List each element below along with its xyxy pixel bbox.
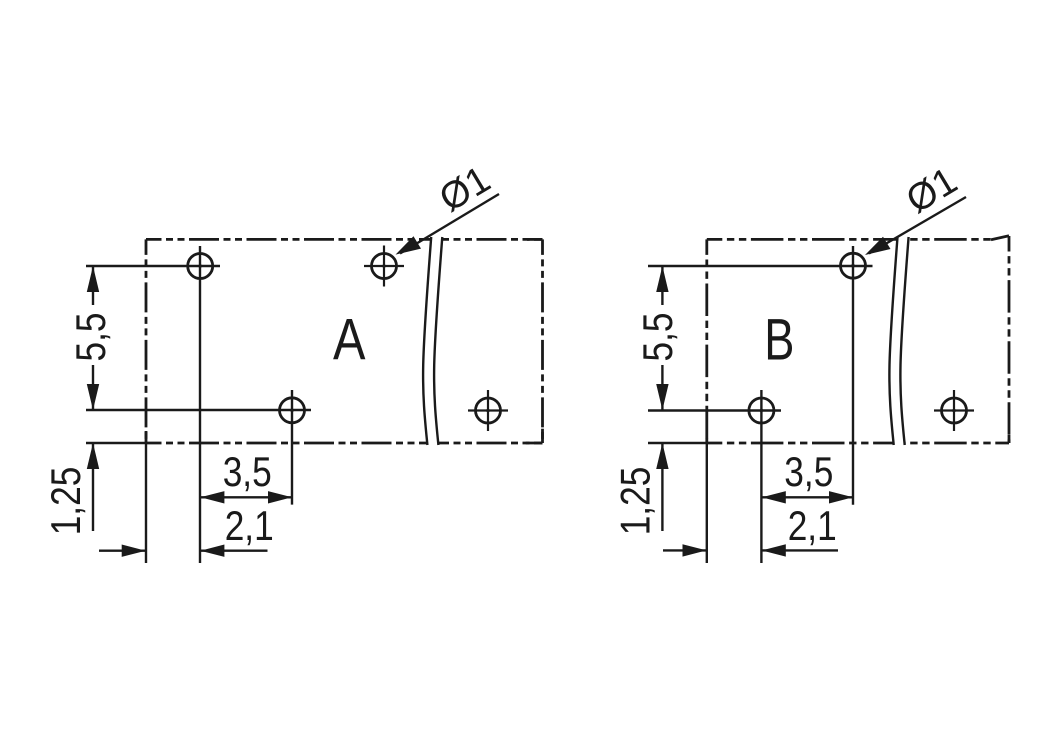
arrow 2,1 A left [200,545,224,557]
arrowheads drawing A [87,266,292,557]
arrow 5,5 B up [656,266,668,292]
dimension 2,1 A dimension line [99,550,146,552]
leader line Ø1 B [869,197,966,254]
svg-text:5,5: 5,5 [68,312,115,361]
break lines B (white mask + two wavy lines) [889,237,908,445]
svg-text:2,1: 2,1 [225,503,274,550]
dimension 2,1 B dimension line [663,549,707,551]
svg-text:5,5: 5,5 [635,312,682,361]
hole A4 bottom-right [468,390,508,431]
outline B corner dash patches [705,438,708,443]
extension line A plate bottom edge [86,442,147,444]
slanted corner dash B [991,236,1009,240]
svg-text:3,5: 3,5 [223,449,272,496]
break lines A (white mask + two wavy lines) [423,237,442,445]
arrow 2,1 B left [762,544,786,556]
extension line B plate bottom edge [648,442,708,444]
extension line B bottom hole row [648,409,781,411]
arrow 3,5 B left [762,491,786,503]
arrow 5,5 A up [87,266,99,292]
hole A1 top-left [188,254,213,279]
plate outline A (phantom line rectangle) [146,239,543,443]
arrow 2,1 B right [683,544,707,556]
plate outline B (phantom line) [707,236,1009,443]
extension line A column hole3 [291,390,293,505]
svg-text:2,1: 2,1 [788,503,837,550]
svg-text:3,5: 3,5 [784,449,833,496]
hole B2 bottom-left [749,398,774,423]
arrow 1,25 A up [87,443,99,469]
dimension 3,5 B dimension line [761,496,853,498]
leader line Ø1 A [400,194,499,254]
extension line B top hole row [648,265,873,267]
arrow 2,1 A right [122,545,146,557]
hole B3 bottom-right [934,390,974,431]
dimension 1,25 A dimension line [92,443,94,531]
arrowheads drawing B [656,266,853,557]
extension line A column hole1 [199,246,201,563]
svg-text:1,25: 1,25 [43,467,90,536]
hole A2 top-right [364,246,404,287]
svg-text:1,25: 1,25 [613,467,660,536]
dimension 3,5 A dimension line [200,496,292,498]
svg-text:B: B [764,308,794,373]
arrow 3,5 A right [268,491,292,503]
arrow 1,25 B up [656,443,668,469]
dimension 1,25 B dimension line [661,443,663,531]
extension line A left edge below [145,443,147,563]
outline A corner dash patches [527,238,543,241]
arrow 5,5 A down [87,384,99,410]
extension line A top hole row [86,265,220,267]
extension line B column hole2 [760,390,762,563]
dimension 5,5 A dimension line [92,266,94,305]
extension line B column hole1 [852,246,854,505]
hole B1 top [841,253,866,278]
arrow 3,5 B right [829,491,853,503]
leader arrowhead B [865,237,891,255]
arrow 3,5 A left [200,491,224,503]
hole A3 bottom-mid [280,398,305,423]
dimension 5,5 B dimension line [661,266,663,305]
svg-text:A: A [333,309,366,373]
leader arrowhead A [396,236,422,254]
arrow 5,5 B down [656,384,668,410]
extension line A bottom hole row [86,409,311,411]
extension line B left edge below [706,443,708,563]
